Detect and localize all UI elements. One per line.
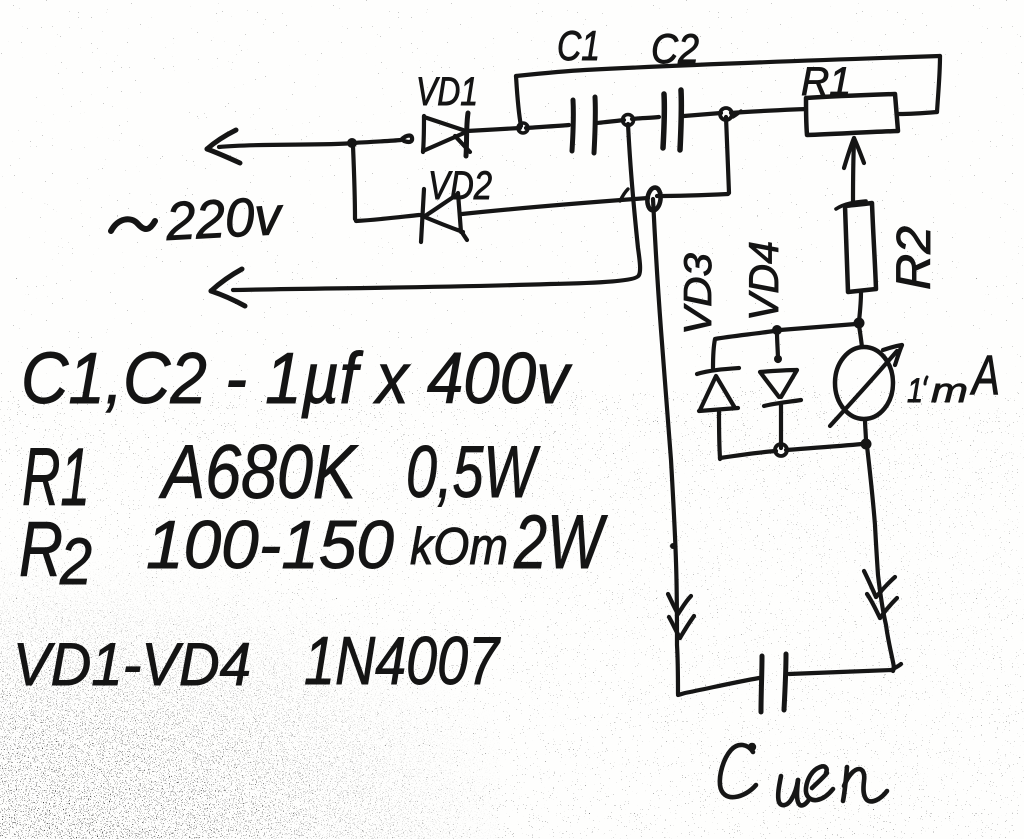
- node: junction C1/C2: [623, 115, 634, 126]
- svg-text:2: 2: [59, 524, 92, 598]
- node: junction VD2 / C2-return / probe: [646, 187, 662, 211]
- wire: top bypass to R1 right: [899, 112, 937, 114]
- svg-text:1N4007: 1N4007: [304, 623, 501, 699]
- wire: node to C2: [632, 117, 659, 119]
- diode VD2: [421, 189, 424, 242]
- svg-text:A680K: A680K: [159, 430, 359, 515]
- svg-text:VD1: VD1: [416, 70, 478, 114]
- wire: lower mains lead with riser to C1/C2 node: [233, 124, 640, 290]
- svg-text:2W: 2W: [513, 500, 608, 585]
- svg-text:C1,C2 - 1µf x 400v: C1,C2 - 1µf x 400v: [21, 339, 573, 419]
- wire: bottom lead left: [678, 678, 759, 695]
- wire: bottom lead right to test capacitor: [789, 670, 892, 674]
- svg-text:VD2: VD2: [428, 164, 492, 208]
- wire: to VD2 cathode: [356, 215, 419, 221]
- meter needle arrow: [830, 351, 897, 426]
- wire: VD2 anode to junction: [462, 198, 648, 214]
- wire: top rail to VD4: [780, 324, 856, 330]
- svg-text:kOm: kOm: [410, 518, 508, 576]
- diode VD4: [777, 332, 778, 361]
- node: VD1 out / C1 in junction: [518, 123, 528, 133]
- svg-text:R: R: [19, 505, 63, 593]
- svg-text:VD1-VD4: VD1-VD4: [13, 631, 251, 698]
- wire: node to C1: [526, 125, 569, 128]
- svg-text:C1: C1: [557, 22, 600, 69]
- svg-text:100-150: 100-150: [146, 507, 394, 583]
- resistor R2: [845, 203, 876, 292]
- capacitor C2: [663, 94, 664, 148]
- wire: top bypass right drop: [937, 56, 940, 112]
- wire: top rail to VD3 corner: [713, 331, 774, 368]
- wire: bottom rail: [720, 451, 776, 458]
- wire: left probe long drop: [653, 199, 678, 694]
- wire: junction to VD1 anode: [352, 136, 412, 144]
- label Cisp (cursive strokes): [720, 743, 887, 806]
- svg-text:R2: R2: [888, 226, 941, 290]
- wire: meter bottom: [865, 419, 866, 442]
- svg-text:VD3: VD3: [677, 253, 720, 335]
- svg-text:m: m: [931, 372, 968, 410]
- wire: junction to riser: [657, 194, 728, 196]
- arrowhead right probe (double chevron): [864, 571, 876, 597]
- svg-text:C2: C2: [651, 25, 699, 72]
- node: junction upper lead / VD1 / VD2 branch: [347, 138, 357, 148]
- wire: right probe drop: [867, 446, 894, 671]
- capacitor C1: [572, 100, 573, 151]
- wiper arrow of R1: [853, 142, 854, 204]
- wire: riser to C2-out node: [726, 117, 729, 193]
- svg-text:VD4: VD4: [740, 241, 787, 321]
- diode VD1: [423, 116, 424, 152]
- arrowhead left probe (double chevron): [668, 594, 678, 614]
- node: junction VD4 bottom: [775, 444, 787, 456]
- node: junction VD4 top: [772, 325, 782, 335]
- wire: VD2 branch drop from node: [353, 146, 355, 219]
- node: junction R2 / meter / diode rail: [854, 318, 865, 329]
- arrowhead lower mains lead: [211, 269, 242, 291]
- arrowhead upper mains lead: [207, 130, 236, 149]
- wire: node to R1 left: [731, 109, 806, 113]
- diode VD3: [697, 368, 739, 374]
- node: junction meter bottom: [861, 439, 872, 450]
- wire: VD3 corner to bottom rail: [718, 458, 722, 459]
- resistor R1 (potentiometer body): [806, 94, 898, 135]
- wire: riser to top bypass: [516, 76, 521, 126]
- svg-text:A: A: [970, 343, 1000, 406]
- capacitor Cisp plates: [784, 654, 786, 710]
- svg-text:220v: 220v: [164, 186, 286, 252]
- wire: top bypass horizontal: [516, 56, 940, 76]
- meter M1 body: [835, 347, 893, 419]
- label ~220V: [111, 219, 155, 231]
- wire: meter top: [859, 326, 862, 347]
- svg-text:1: 1: [907, 372, 923, 410]
- wire: upper mains lead: [219, 143, 354, 147]
- wire: C2 out to node: [684, 113, 721, 116]
- wire: R2 bottom to node: [859, 292, 861, 321]
- wire: C1 to node: [597, 120, 624, 123]
- wire: VD1 cathode to node: [467, 128, 520, 131]
- svg-text:R1: R1: [801, 60, 851, 104]
- node: junction C2 out: [720, 108, 732, 120]
- crossing tick on VD2 wire: [620, 189, 628, 201]
- blob on left probe wire: [670, 543, 676, 549]
